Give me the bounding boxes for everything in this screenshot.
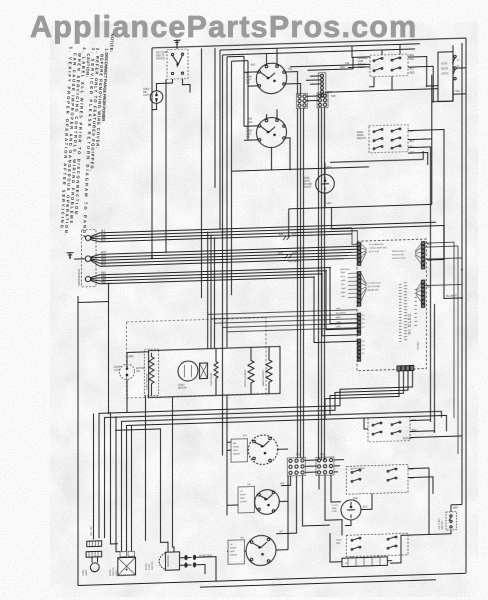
motor M3 xyxy=(341,500,361,521)
wire riser2 xyxy=(165,79,167,252)
wire bus N-a xyxy=(100,246,358,254)
wire sensor drop xyxy=(145,396,147,541)
sensor resistor dashed box xyxy=(144,349,158,396)
svg-text:DOOR: DOOR xyxy=(114,367,121,369)
wire bottom border 2 xyxy=(200,580,436,587)
lock motor M2 xyxy=(166,552,180,570)
svg-text:GRY: GRY xyxy=(336,326,341,328)
pin tick marks inside control xyxy=(399,282,417,341)
wire bus L1-b xyxy=(100,228,352,236)
pin labels P2 P3 xyxy=(362,315,365,355)
svg-text:SURF: SURF xyxy=(246,77,253,79)
switch S1 contacts xyxy=(171,53,183,75)
connector col P4 right xyxy=(422,242,425,269)
label plate SU-LF xyxy=(228,540,245,565)
label SU2 xyxy=(246,128,253,139)
notice text block xyxy=(59,32,115,245)
wire dlb bottom xyxy=(126,379,128,412)
svg-text:UNIT: UNIT xyxy=(230,551,236,553)
connector J2 grid xyxy=(317,93,328,108)
svg-text:BRN: BRN xyxy=(336,317,341,319)
svg-text:SURF: SURF xyxy=(233,446,240,448)
label cluster P1b xyxy=(368,282,382,291)
svg-text:BLK: BLK xyxy=(318,100,321,105)
wire bus L1-c xyxy=(100,231,358,239)
label K1 xyxy=(358,58,368,69)
svg-text:UNIT: UNIT xyxy=(240,498,246,500)
wire SU1 left a xyxy=(244,71,258,73)
wire SU1 right b xyxy=(285,84,300,95)
svg-text:AppliancePartsPros.com: AppliancePartsPros.com xyxy=(30,10,417,44)
svg-text:BLK: BLK xyxy=(101,239,106,242)
svg-text:BLK: BLK xyxy=(248,118,253,121)
wedge P4 xyxy=(415,243,422,264)
svg-text:LAMP: LAMP xyxy=(85,569,88,576)
svg-text:BAKE: BAKE xyxy=(357,131,364,134)
wire bottom drop 1 xyxy=(99,370,413,538)
svg-text:VENT: VENT xyxy=(336,540,342,542)
svg-text:C313: C313 xyxy=(416,342,420,350)
wire mid risers J2 xyxy=(319,108,325,461)
svg-text:IND LTS: IND LTS xyxy=(156,55,165,57)
lamp connector A xyxy=(87,541,102,547)
labels left P1b xyxy=(341,272,346,298)
wire SU1 right a YEL xyxy=(285,72,297,95)
wedge P4b xyxy=(416,282,422,302)
svg-text:TICH ASM DN: TICH ASM DN xyxy=(369,243,384,246)
svg-text:CONV: CONV xyxy=(178,385,185,387)
svg-text:GRN: GRN xyxy=(341,280,346,282)
label SU1 xyxy=(246,74,253,85)
node xyxy=(430,221,432,223)
svg-text:MOTOR: MOTOR xyxy=(178,388,187,390)
svg-text:DOOR: DOOR xyxy=(441,68,448,70)
label plate SU-LR xyxy=(238,486,255,513)
relay K5 dashed box xyxy=(368,417,410,442)
wire bus L1-a xyxy=(100,222,436,233)
wire SU2 left a BLK xyxy=(244,125,258,127)
wire bus drops to oven xyxy=(208,232,215,349)
pilot lamp L1 xyxy=(150,91,163,104)
wire left jog xyxy=(78,284,109,414)
wire bus N-c WHT xyxy=(100,252,352,260)
label S9 xyxy=(439,517,444,530)
wire drop g xyxy=(111,413,118,544)
svg-text:OVEN: OVEN xyxy=(83,569,85,576)
svg-text:RED: RED xyxy=(280,483,285,485)
wire su right feeds xyxy=(276,449,288,550)
node dots g h xyxy=(110,412,112,414)
node dots band xyxy=(222,413,224,415)
relay K4 contacts xyxy=(351,536,397,550)
wire K2 right c xyxy=(408,147,435,434)
terminal block dashed box xyxy=(82,229,97,286)
wire left border xyxy=(77,296,79,586)
svg-text:AT DOOR: AT DOOR xyxy=(369,250,379,253)
wire su1 to relay a xyxy=(290,64,370,67)
wire SU2 right leg xyxy=(285,138,290,170)
wire bottom drop 3 xyxy=(122,371,404,552)
svg-text:OVEN SENSOR: OVEN SENSOR xyxy=(147,373,149,390)
wire pilot bottom xyxy=(152,103,157,109)
connector col P2 xyxy=(358,313,361,335)
connector col P4b xyxy=(422,280,425,307)
wire left riser xyxy=(151,48,153,258)
svg-text:LIGHTS: LIGHTS xyxy=(303,187,312,189)
label K4 xyxy=(336,540,342,545)
label M3 xyxy=(332,505,339,513)
svg-text:YEL: YEL xyxy=(288,68,293,71)
svg-text:BLK: BLK xyxy=(279,233,284,236)
svg-text:RR: RR xyxy=(233,443,237,445)
ground xyxy=(67,252,86,259)
svg-text:GRY: GRY xyxy=(341,296,346,298)
wire bottom drop 2 xyxy=(105,371,409,539)
svg-text:RED: RED xyxy=(353,498,358,500)
wire top border xyxy=(152,38,466,48)
svg-text:BLK: BLK xyxy=(427,286,432,289)
wire control feeds left xyxy=(344,228,358,259)
wire K1 right a xyxy=(408,57,427,87)
node xyxy=(461,268,463,270)
resistor R1 zigzag xyxy=(149,353,154,392)
node xyxy=(289,168,291,170)
connector column J3 xyxy=(318,73,326,98)
wire bus L2-d xyxy=(100,276,358,350)
lamp bulb xyxy=(92,557,98,563)
svg-text:RED: RED xyxy=(336,308,341,310)
relay K3 contacts xyxy=(351,468,397,482)
wire K3 right xyxy=(408,468,433,535)
svg-text:DOUBLE: DOUBLE xyxy=(358,58,368,60)
svg-text:LATCH: LATCH xyxy=(441,72,449,75)
label dlb xyxy=(114,366,145,374)
wire M3 leads xyxy=(345,494,372,526)
svg-text:LIGHT: LIGHT xyxy=(303,181,310,183)
svg-text:CONV ELEM: CONV ELEM xyxy=(211,373,213,386)
wire SU1 left b xyxy=(248,85,258,87)
svg-text:ORN: ORN xyxy=(336,322,341,324)
wire elements top feeds xyxy=(152,347,270,398)
wire right border xyxy=(465,38,467,573)
svg-text:RELAY DR: RELAY DR xyxy=(368,289,379,292)
svg-text:OVEN: OVEN xyxy=(303,178,310,180)
dlb contacts xyxy=(126,365,128,376)
chassis stub above switch xyxy=(174,39,180,49)
wire bus L2-c xyxy=(100,273,358,343)
wire bus N-d xyxy=(100,256,348,264)
label M1 xyxy=(178,385,187,390)
svg-text:BRN: BRN xyxy=(341,292,346,294)
svg-text:TAN: TAN xyxy=(320,453,325,456)
svg-text:UNIT: UNIT xyxy=(246,134,252,136)
label K3 xyxy=(350,467,366,470)
relay K2 dashed box xyxy=(369,125,408,153)
label plate SU-RR xyxy=(231,439,248,463)
connector col P1b xyxy=(358,272,361,307)
wire bus N-e xyxy=(100,259,344,267)
wire splice out xyxy=(196,557,216,582)
wire switch right leg xyxy=(183,78,191,92)
wire loop D xyxy=(231,61,233,295)
door switch box xyxy=(118,557,136,575)
wire bus L2-a xyxy=(100,267,358,331)
svg-text:DOOR: DOOR xyxy=(110,569,112,576)
wire grid links xyxy=(305,459,344,473)
svg-text:WHT: WHT xyxy=(278,252,284,255)
surface unit SU-LR circle xyxy=(255,489,280,514)
wire band ext 2 xyxy=(325,415,447,435)
svg-text:BLU/WHT: BLU/WHT xyxy=(336,313,347,315)
svg-text:BROIL: BROIL xyxy=(357,135,365,137)
wire SU2 bottom to rail xyxy=(271,148,273,170)
bottom connector grid1 xyxy=(287,457,305,476)
wire door switch to border xyxy=(456,67,466,69)
node dots drops xyxy=(207,231,209,233)
svg-text:LINE: LINE xyxy=(358,61,364,63)
wire riser F xyxy=(214,48,216,188)
svg-text:HOT SURF: HOT SURF xyxy=(156,52,168,54)
svg-text:BLU: BLU xyxy=(341,276,346,278)
dlb circle dashed xyxy=(119,364,134,380)
wire K2 right a xyxy=(408,129,462,300)
relay K5 contacts xyxy=(372,421,401,435)
wedge P1b xyxy=(361,273,367,301)
wire band ext 1 xyxy=(330,411,442,421)
svg-text:TAN: TAN xyxy=(331,95,336,98)
wire J3 left stubs xyxy=(306,76,320,84)
splice BLK-BLK xyxy=(279,233,297,240)
wire su links xyxy=(227,441,255,551)
wire loop C xyxy=(226,57,228,516)
oven lamp circle xyxy=(316,174,335,193)
wire loop B top xyxy=(223,49,416,55)
wedge P1 xyxy=(361,244,367,263)
svg-text:MOTOR: MOTOR xyxy=(152,561,154,570)
svg-text:FOR DOOR: FOR DOOR xyxy=(392,254,404,256)
wire bus L2-b xyxy=(100,270,358,337)
wire oven rail top xyxy=(127,351,149,354)
relay K1 dashed box xyxy=(370,54,408,77)
wire lamp drop xyxy=(93,414,95,540)
wire loop C top xyxy=(227,56,244,127)
svg-text:LITE: LITE xyxy=(332,511,337,513)
svg-text:RED: RED xyxy=(340,66,345,69)
wire drop extra xyxy=(131,425,133,551)
wire loop A xyxy=(219,50,221,229)
terminal N xyxy=(85,256,91,262)
svg-text:BLK: BLK xyxy=(248,121,253,124)
wire K5 right xyxy=(410,419,462,438)
svg-text:WHT YEL: WHT YEL xyxy=(91,525,93,535)
svg-text:WHT/BLU: WHT/BLU xyxy=(340,269,350,271)
wire K2 bottom rail xyxy=(330,151,423,162)
wire SU1 tops xyxy=(267,48,278,65)
wire stubs P1b xyxy=(348,273,358,297)
relay K4 dashed box xyxy=(346,533,408,556)
svg-text:WHT: WHT xyxy=(453,508,459,510)
wire dlb top RED xyxy=(126,352,128,364)
svg-text:LOCK: LOCK xyxy=(149,563,151,570)
svg-text:1200W: 1200W xyxy=(240,501,248,503)
lamp connector B xyxy=(86,551,102,557)
wire mid risers J1 xyxy=(298,108,304,458)
switch SU2 circle xyxy=(257,117,287,148)
wire pilot top to switch xyxy=(157,79,173,91)
svg-text:IND: IND xyxy=(143,92,147,94)
svg-text:RED: RED xyxy=(410,71,415,74)
connector col P1 xyxy=(358,243,361,266)
element E1 zigzag xyxy=(214,356,218,386)
switch S1 dashed box xyxy=(167,49,188,79)
wire grid drops xyxy=(276,474,342,537)
svg-text:BROIL ELEMENT: BROIL ELEMENT xyxy=(245,369,247,387)
wire door sw joins xyxy=(427,45,466,102)
oven enclosure dashed xyxy=(127,318,267,398)
svg-text:BLK: BLK xyxy=(410,58,415,61)
svg-text:SURF: SURF xyxy=(240,494,247,496)
label oven lamp xyxy=(303,178,312,189)
node dots xyxy=(426,85,428,87)
splice pair xyxy=(180,557,192,565)
svg-text:BLK: BLK xyxy=(410,469,415,471)
svg-text:OVEN: OVEN xyxy=(143,89,150,91)
svg-text:SWITCH: SWITCH xyxy=(156,58,165,60)
node fanout L1 xyxy=(90,233,100,242)
door light switch xyxy=(453,55,460,80)
svg-text:TERM BLOCK: TERM BLOCK xyxy=(77,269,81,286)
connector strip bottom xyxy=(397,365,414,371)
svg-text:BLU: BLU xyxy=(363,506,368,508)
svg-text:SURF: SURF xyxy=(230,548,237,550)
wire SU2 left b BLK xyxy=(244,139,258,141)
svg-text:SURF: SURF xyxy=(246,131,253,133)
wire feeds P2 col xyxy=(208,310,358,333)
node fanout L2 xyxy=(90,275,100,284)
wire loop D top xyxy=(232,61,249,141)
surface unit SU-LF circle xyxy=(246,535,276,566)
wire lamp bottom xyxy=(289,74,444,264)
svg-text:FAN: FAN xyxy=(332,507,337,510)
svg-text:BLK: BLK xyxy=(243,435,248,437)
svg-text:UNIT: UNIT xyxy=(246,80,252,82)
svg-text:LR: LR xyxy=(240,491,243,493)
svg-text:BLU/WHT: BLU/WHT xyxy=(446,295,457,298)
svg-text:SW AND: SW AND xyxy=(303,183,312,186)
svg-text:LIGHT: LIGHT xyxy=(143,95,150,97)
wire K1 right b xyxy=(408,66,433,102)
wire lock motor feed xyxy=(115,397,174,554)
svg-text:RED: RED xyxy=(327,166,332,169)
svg-text:GRY: GRY xyxy=(327,202,333,205)
wire K2 right b xyxy=(408,138,432,141)
svg-text:P: P xyxy=(179,38,181,42)
node xyxy=(108,412,110,414)
svg-text:COOL: COOL xyxy=(332,505,339,507)
wire S9 up xyxy=(451,504,462,506)
switch SU1 circle xyxy=(256,63,286,94)
svg-text:HI ELEC: HI ELEC xyxy=(407,313,412,335)
svg-text:TAN: TAN xyxy=(296,454,301,457)
wire inner right rail xyxy=(461,43,463,505)
svg-text:YEL: YEL xyxy=(345,62,350,65)
svg-text:3000W: 3000W xyxy=(233,453,241,455)
label door switch xyxy=(110,567,118,576)
svg-text:VOLT LIMIT: VOLT LIMIT xyxy=(439,517,441,529)
door switch connector row xyxy=(120,552,127,557)
limit switch S9 dashed xyxy=(446,512,457,530)
connector J1 grid xyxy=(297,93,308,108)
wire SU2 top xyxy=(267,109,278,119)
wire J3 out right xyxy=(326,89,438,93)
svg-text:BLK/WHT: BLK/WHT xyxy=(403,438,414,440)
label door switch xyxy=(441,62,449,75)
svg-text:LOCK: LOCK xyxy=(114,370,121,372)
wire K1 feeds xyxy=(348,44,400,91)
terminal box T2 xyxy=(342,557,387,567)
motor M1 xyxy=(178,361,198,382)
surface unit SU-RR circle dashed xyxy=(248,435,277,465)
svg-text:AUTO: AUTO xyxy=(441,62,448,65)
label pilot xyxy=(143,89,150,97)
wire J1-J2 links xyxy=(306,96,318,101)
bottom connector grid2 xyxy=(316,457,334,476)
svg-text:RED: RED xyxy=(129,355,134,358)
svg-text:MOTOR: MOTOR xyxy=(136,368,145,370)
svg-text:BLU: BLU xyxy=(410,67,415,70)
label K2 xyxy=(357,131,366,140)
bus wire labels xyxy=(101,230,107,284)
relay K2 contacts xyxy=(373,128,401,150)
wire su1 to relay b xyxy=(308,57,354,70)
wire P4 exits xyxy=(425,242,462,455)
node fanout N xyxy=(91,254,100,266)
label oven lamp xyxy=(83,569,88,576)
wire bus N-b xyxy=(100,249,358,257)
svg-text:BLK: BLK xyxy=(292,233,297,236)
svg-text:SWITCH: SWITCH xyxy=(113,567,115,576)
labels P2 feeds xyxy=(336,308,347,328)
wire drop h xyxy=(116,417,120,552)
wire riser E xyxy=(201,48,203,298)
svg-text:TAN: TAN xyxy=(455,90,460,93)
wire K4 feeds xyxy=(330,531,392,562)
door switch frame xyxy=(438,52,453,102)
svg-text:FAN: FAN xyxy=(336,542,341,545)
svg-text:RED: RED xyxy=(101,281,106,284)
svg-text:RELAYS: RELAYS xyxy=(357,137,366,140)
svg-text:BLU: BLU xyxy=(410,478,415,480)
svg-text:UNIT: UNIT xyxy=(233,450,239,452)
wire loop A top xyxy=(220,44,420,50)
wire K5 left xyxy=(364,418,368,429)
svg-text:RELAY: RELAY xyxy=(358,467,366,470)
svg-text:RED: RED xyxy=(341,272,346,274)
connector col P3 xyxy=(358,339,361,361)
svg-text:BLU: BLU xyxy=(410,140,415,143)
relay K1 contacts xyxy=(373,57,401,72)
wire bottom drop 4 xyxy=(127,371,400,552)
wire S9 bottom run xyxy=(390,530,451,563)
node dot xyxy=(151,257,153,259)
label cluster control top xyxy=(369,242,406,261)
svg-text:2500W: 2500W xyxy=(230,554,238,556)
control U1 dashed box xyxy=(357,239,427,371)
wire bus L1-d BLK xyxy=(100,234,352,242)
svg-text:BAKE ELEMENT: BAKE ELEMENT xyxy=(262,369,265,387)
terminal L2 xyxy=(85,276,90,281)
wire S9 top xyxy=(450,505,452,512)
